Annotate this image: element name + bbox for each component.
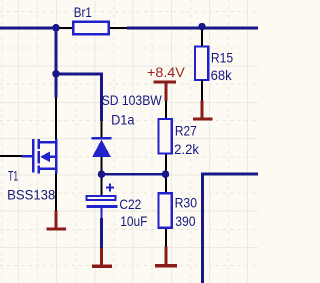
svg-text:+8.4V: +8.4V: [147, 64, 185, 80]
resistor R15: [195, 47, 208, 80]
wire C22 bottom: [100, 218, 103, 248]
resistor R27: [159, 119, 172, 153]
wire T1 source pin lead: [55, 173, 57, 210]
wire D1a anode pin lead: [101, 157, 103, 172]
component U2 outline corner: [203, 174, 259, 283]
wire Br1 left pin lead: [56, 27, 73, 29]
transistor T1: [22, 139, 57, 173]
svg-text:2.2k: 2.2k: [174, 141, 200, 157]
diode D1a: [91, 138, 111, 157]
svg-text:R15: R15: [211, 49, 233, 65]
svg-text:C22: C22: [119, 196, 141, 212]
wire D1a cathode pin lead: [101, 121, 103, 138]
svg-text:Br1: Br1: [74, 4, 92, 20]
resistor R30: [159, 193, 172, 227]
wire top rail left: [0, 26, 58, 29]
svg-text:BSS138: BSS138: [7, 187, 55, 203]
svg-text:10uF: 10uF: [120, 213, 147, 229]
resistor Br1: [73, 22, 109, 35]
wire R27 top pin lead: [165, 101, 167, 118]
svg-text:390: 390: [175, 213, 195, 229]
ground under R30: [155, 247, 177, 268]
ground under R15: [193, 101, 212, 121]
ground under C22: [92, 248, 112, 268]
ground under T1: [47, 211, 66, 231]
svg-text:R27: R27: [175, 123, 197, 139]
wire C22 top pin lead: [101, 178, 103, 195]
svg-text:SD 103BW: SD 103BW: [102, 92, 163, 108]
wire R30 bottom pin lead: [165, 229, 167, 247]
transistor Q T1 gate wire: [0, 155, 22, 157]
wire R30 top pin lead: [165, 176, 167, 194]
capacitor C22: [86, 184, 117, 219]
wire R15 top pin lead: [201, 30, 203, 47]
node junction J3: [198, 23, 205, 30]
wire left vertical: [55, 27, 58, 98]
node junction J2: [52, 70, 60, 78]
node junction J4: [98, 170, 106, 178]
wire top rail right: [127, 26, 258, 29]
node junction J5: [162, 170, 170, 178]
wire Br1 right pin lead: [110, 27, 128, 29]
wire R27 bottom pin lead: [165, 155, 167, 173]
svg-text:68k: 68k: [211, 67, 233, 83]
node junction J1: [52, 24, 60, 32]
wire mid horizontal: [102, 173, 166, 176]
wire branch to diode horizontal: [56, 74, 102, 121]
power +8.4V: [154, 81, 176, 102]
wire R15 bottom pin lead: [201, 80, 203, 101]
svg-text:R30: R30: [175, 195, 198, 211]
svg-text:T1: T1: [8, 167, 18, 183]
wire T1 drain pin lead: [55, 97, 57, 139]
svg-text:D1a: D1a: [111, 112, 135, 128]
